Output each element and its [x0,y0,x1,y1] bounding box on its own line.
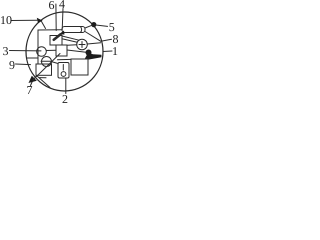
resistor box B1 [50,36,62,46]
svg-text:2: 2 [62,92,68,104]
svg-text:7: 7 [27,83,33,97]
pin 4 leader [61,9,64,31]
pin 8 leader [101,39,112,41]
pin 7 leader [31,81,33,86]
bar under diagonal [40,77,47,79]
wire plus-circle to case right [87,43,100,44]
crossed box [36,64,52,75]
pin4 junction blob on capsule [59,31,65,35]
inner frame left wire [37,30,39,64]
diagonal D2 [37,76,51,88]
wire B2 area to R4 [58,58,72,60]
wire E2 to B3 [51,62,58,64]
electrode circle E2 [42,57,52,67]
wire B2 to junction dot [67,50,86,52]
diagonal D1 [37,54,61,77]
thick lead dot to case [85,53,102,60]
wire case wall to junction [27,57,38,59]
wire E1 to box B2 [46,49,56,51]
box R4 [71,59,88,75]
pin 2 leader [65,78,67,94]
pin 3 leader [10,50,42,52]
wire B1 to plus-circle [62,36,79,40]
wire capsule to pin5 dot [85,25,92,28]
wire from pin10 dot to inner frame [42,22,46,29]
B3 inner circle [61,72,66,77]
pin 10 junction dot [37,18,43,23]
svg-text:6: 6 [49,0,55,12]
pin 9 leader [16,63,31,66]
pin 10 leader [11,19,37,21]
wire capsule to pin8 [85,32,101,42]
svg-text:9: 9 [9,58,15,72]
pin 7 arrow blob [29,76,37,83]
component box B3 [58,63,69,79]
svg-text:10: 10 [0,13,12,27]
pin 1 leader [103,50,112,53]
svg-text:3: 3 [3,44,9,58]
electrode circle E1 [37,47,47,57]
B3 inner bar [62,65,64,71]
capsule body (cylinder) [62,27,85,33]
capsule end cap [81,27,82,33]
wire through E2 [41,60,51,62]
plus terminal circle [77,39,88,50]
wire pin7 arrow to crossed box [33,76,37,80]
svg-text:4: 4 [59,0,65,11]
inner frame top wire [38,29,62,31]
pin 6 leader [55,4,57,31]
svg-text:1: 1 [112,44,118,58]
thick diagonal in B1 [54,34,61,39]
box B2 [56,45,67,56]
pin 5 junction dot [91,22,96,27]
junction dot (pin1 node) [86,50,92,56]
pin 5 leader [96,25,108,26]
wire B2 to plus-circle [67,44,77,47]
can outline (case circle) [26,12,103,91]
pin number labels [0,0,119,106]
